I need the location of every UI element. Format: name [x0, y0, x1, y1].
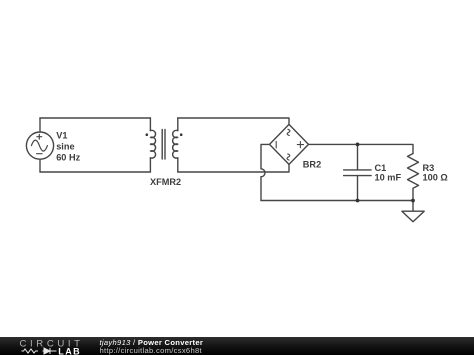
svg-text:XFMR2: XFMR2 — [150, 177, 181, 187]
svg-text:LAB: LAB — [58, 346, 81, 355]
svg-text:V1: V1 — [56, 131, 67, 141]
svg-text:100 Ω: 100 Ω — [423, 172, 448, 182]
svg-text:10 mF: 10 mF — [375, 172, 402, 182]
svg-text:BR2: BR2 — [303, 159, 321, 169]
svg-text:sine: sine — [56, 142, 74, 152]
svg-text:60 Hz: 60 Hz — [56, 152, 80, 162]
